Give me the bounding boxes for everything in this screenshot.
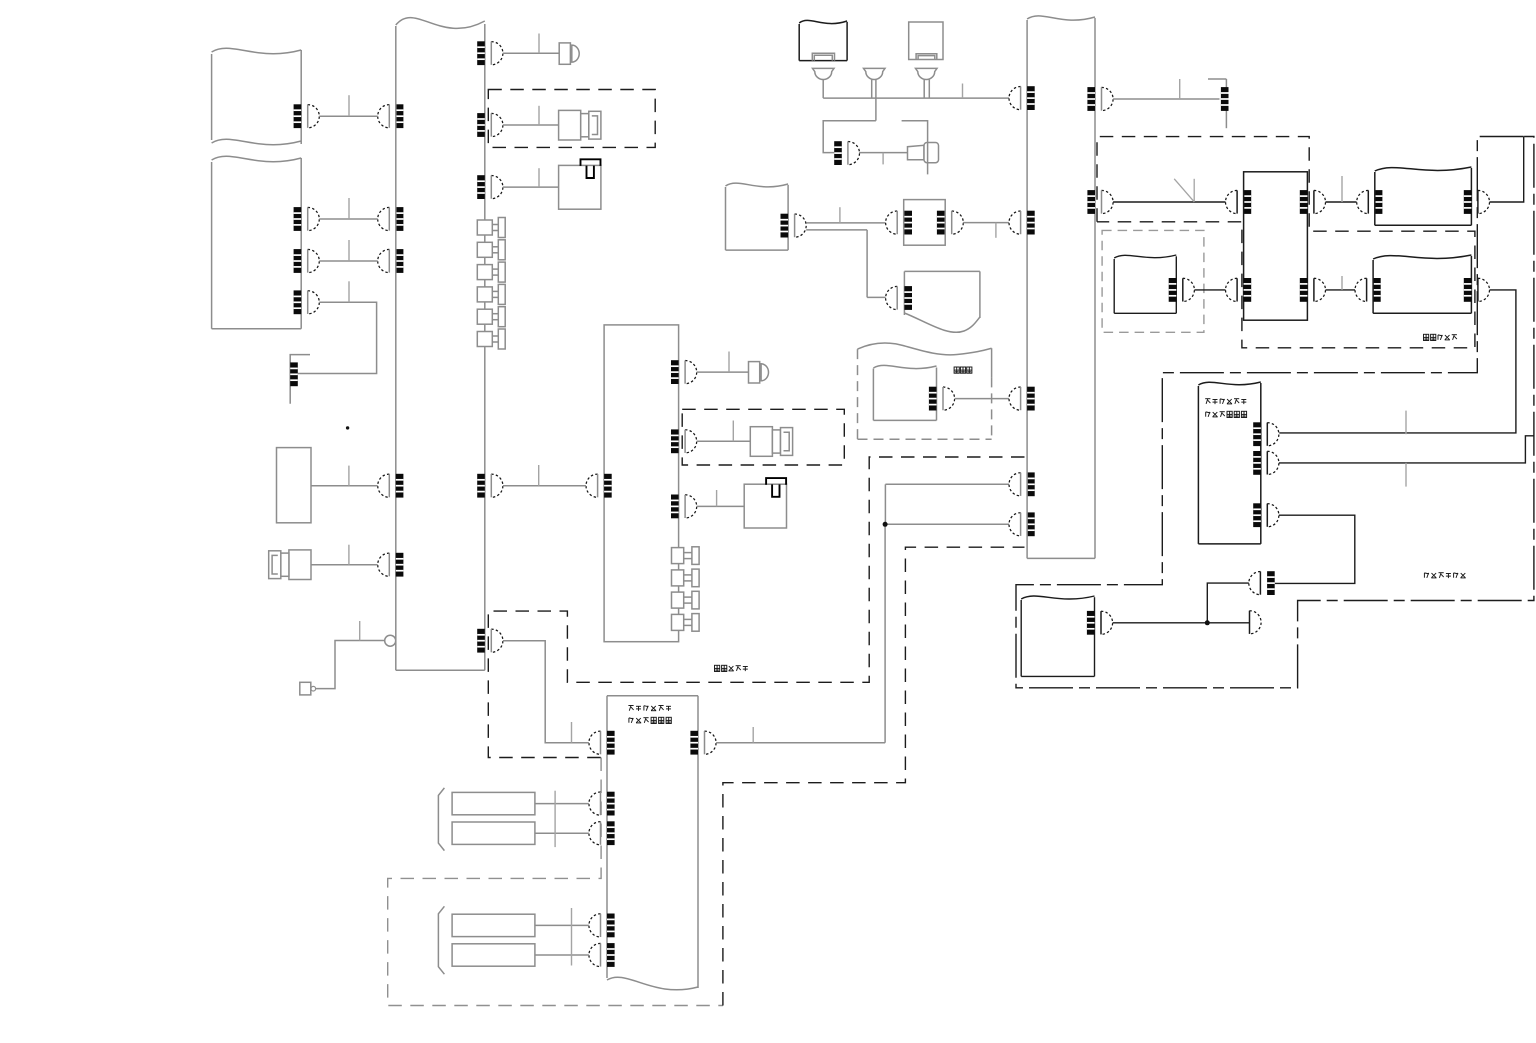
wire W34 <box>955 398 1009 400</box>
monitor M1 (break box) <box>799 20 847 60</box>
connector J41 on U6 <box>1253 503 1279 527</box>
cable marker W6 <box>538 106 540 125</box>
device box B1 <box>277 448 312 523</box>
touch-panel group boundary G7 (chain line) <box>1016 137 1534 688</box>
connector J22 on right panel <box>1009 512 1035 536</box>
connector J5 on U1 right <box>477 41 503 65</box>
stub terminal T1 with hatch <box>290 355 310 404</box>
wire W17 <box>535 803 589 805</box>
connector J3 on panel edge <box>294 249 320 273</box>
device box B2 (break box) <box>726 183 789 250</box>
monitor M4 (break box) <box>1373 255 1471 313</box>
cable marker W14 <box>716 490 718 506</box>
connector J21 on right panel <box>1009 472 1035 496</box>
wire W39 <box>1326 289 1357 291</box>
cable marker W8 <box>348 466 350 486</box>
wire W5 <box>503 52 559 54</box>
cable marker W39 <box>1341 276 1343 290</box>
small terminal T2 <box>300 682 316 695</box>
device box B4 (break bottom) <box>886 271 980 332</box>
connector J42 on B7 <box>1087 611 1113 635</box>
connector J1b on main unit U1 <box>378 104 404 128</box>
connector J9 on U1 left <box>378 553 404 577</box>
power rect R4 <box>452 944 535 966</box>
wire W19 <box>535 924 589 926</box>
plug component C8 <box>908 143 939 163</box>
bracket BR2 <box>438 906 444 974</box>
plug component C1 (adapter) <box>559 43 579 64</box>
kbd-mouse switcher U5 <box>1244 172 1308 320</box>
connector J30 on switcher U5 <box>1226 190 1252 214</box>
wire W12 <box>697 371 749 373</box>
cable marker W42 <box>1405 463 1407 487</box>
wire W3 <box>319 260 377 262</box>
wire W45 <box>1113 622 1250 624</box>
connector J36 on M4 right <box>1464 278 1490 302</box>
cable marker W12 <box>728 352 730 373</box>
wire W21 (monitor feed upper) <box>885 484 1009 524</box>
monitor M3 (break box) <box>1375 167 1472 225</box>
junction dot N1 <box>883 522 888 527</box>
component C7 (T-slot block) <box>744 478 786 528</box>
power rect R3 <box>452 914 535 936</box>
wire W2 <box>319 218 377 220</box>
wire W9 <box>311 564 378 566</box>
cable marker W37 <box>1341 176 1343 202</box>
connector J28 on U4 right <box>1087 87 1113 111</box>
cable marker W2 <box>348 198 350 219</box>
connector J17 on U3 left <box>589 792 615 816</box>
wire W32 <box>963 222 1009 224</box>
connector J3b on main unit U1 <box>378 249 404 273</box>
cable marker W27 <box>962 84 964 99</box>
device box B7 (break box) <box>1021 596 1094 676</box>
connector J39 on U6 <box>1253 422 1279 446</box>
wire W38 (to touch panel) <box>1490 137 1524 203</box>
label mouse-switch U6 <box>1206 411 1247 417</box>
wire W8 <box>311 485 378 487</box>
cable marker W3 <box>348 240 350 261</box>
connector J40 on U6 <box>1253 451 1279 475</box>
cable marker W19-20 <box>571 908 573 966</box>
connector J15 on U3 right <box>690 731 716 755</box>
wire W4 (bent) <box>298 302 377 373</box>
label rear-monitor <box>715 665 748 671</box>
wire W10 (bent) <box>316 641 385 689</box>
wire W37 <box>1326 201 1357 203</box>
wire W22 (monitor feed lower) <box>885 523 1009 525</box>
connector J29 on U4 right <box>1087 190 1113 214</box>
terminator T3 with hatch <box>1208 79 1229 128</box>
inline pair K2 (plug+hatch) <box>1249 571 1275 595</box>
wire W33 <box>867 296 887 298</box>
connector J24 on B2 <box>781 214 807 238</box>
bracket BR1 <box>438 788 444 851</box>
device box B6 (break box) <box>1114 255 1176 313</box>
dashed box G6 <box>1102 230 1204 332</box>
power rect R2 <box>452 822 535 844</box>
device box M2 <box>909 22 943 60</box>
connector J18 on U3 left <box>589 821 615 845</box>
bus wire W27 <box>823 97 1009 99</box>
dashed group boundary G5 (staircase) <box>1097 137 1475 348</box>
connector J35 on monitor M4 <box>1355 278 1381 302</box>
antenna lead W30 <box>902 121 928 175</box>
cable marker W31 <box>839 207 841 223</box>
open connector J43 <box>1250 611 1262 634</box>
accessory box B5 (break box) <box>873 365 936 420</box>
connector J32 on monitor M3 <box>1357 190 1383 214</box>
plug component C4 <box>269 550 311 580</box>
label wall-monitor <box>1424 334 1457 340</box>
inline pair K1 (hatch+plug) <box>834 141 859 165</box>
cable marker W17-18 <box>554 791 556 847</box>
wire W44 (bent) <box>1207 583 1249 623</box>
connector J23 on U4 left <box>1009 86 1035 110</box>
connector J11 on U1 right <box>477 474 503 498</box>
wire W36 <box>1113 201 1225 203</box>
dashed group box G1 <box>488 90 655 148</box>
plug component C6 (connector set) <box>750 427 792 457</box>
connector J38 on U5 left <box>1226 278 1252 302</box>
accessory group box G4 (dash-dot) <box>858 343 992 439</box>
cable marker W15 <box>752 727 754 743</box>
power rect R1 <box>452 792 535 814</box>
connector J14 on U2 right <box>671 495 697 519</box>
wire W42 (to touch panel) <box>1279 436 1534 463</box>
dashed cable group boundary G3a (gray part) <box>388 758 723 1006</box>
kbd-mouse switcher U6 (break top) <box>1198 382 1260 544</box>
cable marker W1 <box>348 95 350 116</box>
connector J26 on B5 <box>929 387 955 411</box>
dashed group box G2 <box>682 409 844 465</box>
terminal chain TB2 on U2 <box>672 547 700 631</box>
wire W35 <box>1113 98 1219 100</box>
wire W13 <box>697 440 751 442</box>
cable marker W29 <box>882 153 884 165</box>
label kbd U6 <box>1205 399 1246 404</box>
connector J7 on U1 right <box>477 175 503 199</box>
cable marker W10 <box>359 621 361 641</box>
wire W26 (twin) <box>872 80 876 121</box>
cable marker W9 <box>348 545 350 565</box>
wire W16 (bent) <box>503 641 589 743</box>
connector J2 on panel edge <box>294 207 320 231</box>
label mouse-switch U3 <box>629 717 671 723</box>
wire W14 <box>697 505 745 507</box>
label touch-panel <box>1424 573 1465 578</box>
connector J37 on B6 <box>1169 278 1195 302</box>
round connector J10 on U1 left <box>385 635 396 646</box>
wire W43 (loop) <box>1275 515 1355 583</box>
wire W7 <box>503 186 559 188</box>
unit panel U4 (right, break top) <box>1027 16 1095 559</box>
wire W25 (twin) <box>924 80 929 99</box>
connector J11b on U2 left <box>586 474 612 498</box>
connector J31 on U5 right <box>1300 190 1326 214</box>
wire W40 (loop to switcher U6) <box>1279 290 1516 433</box>
plug component C2 (connector set) <box>559 110 601 140</box>
connector J20 on U3 left <box>589 943 615 967</box>
connector J16b on U1 right <box>477 629 503 653</box>
main unit U1 (central panel, break top) <box>396 18 485 671</box>
sub unit U2 (rear-monitor panel) <box>604 325 679 642</box>
cable marker W16 <box>571 722 573 743</box>
connector bell V3 <box>864 68 886 79</box>
connector J13 on U2 right <box>671 429 697 453</box>
connector J6 on U1 right <box>477 113 503 137</box>
connector J33 on M3 right <box>1464 190 1490 214</box>
component C3 (T-slot block) <box>559 159 601 209</box>
wire W1 <box>319 115 377 117</box>
junction dot N2 <box>1205 620 1210 625</box>
connector J8 on U1 left <box>378 474 404 498</box>
twin cable W31 <box>806 223 886 298</box>
cable marker W11 <box>538 465 540 486</box>
wire W18 <box>535 832 589 834</box>
unit panel A2 (break box left) <box>212 156 302 328</box>
cable marker W32 <box>995 223 997 238</box>
wire W29 <box>859 152 907 154</box>
connector J25 on U4 left <box>1009 211 1035 235</box>
wire W41 <box>1194 289 1225 291</box>
wire W11 <box>503 485 586 487</box>
plug component C5 (adapter) <box>749 362 769 383</box>
pedestal of M2 <box>916 54 937 60</box>
connector J2b on main unit U1 <box>378 207 404 231</box>
pedestal of M1 <box>812 53 834 60</box>
connector J19 on U3 left <box>589 914 615 938</box>
wire W15 <box>716 742 885 744</box>
connector J12 on U2 right <box>671 360 697 384</box>
wire W23 (drop to switcher) <box>884 524 886 742</box>
connector J1 on panel edge <box>294 104 320 128</box>
label kbd U3 <box>628 706 671 711</box>
junction box B3 (with connectors) <box>886 200 964 246</box>
wire W24 <box>822 80 824 99</box>
cable marker W35 <box>1179 79 1181 99</box>
connector J27 on U4 left <box>1009 387 1035 411</box>
wire W6 <box>503 124 559 126</box>
connector J4 on panel edge <box>294 290 320 314</box>
unit panel A1 (break box top-left) <box>212 48 302 144</box>
connector bell V1 <box>813 68 835 79</box>
label accessories <box>954 367 972 373</box>
cable marker W5 <box>538 34 540 54</box>
wire W20 <box>535 954 589 956</box>
kbd-mouse switcher U3 (break bottom) <box>607 696 698 990</box>
connector J34 on U5 right <box>1300 278 1326 302</box>
terminal chain TB1 on U1 <box>477 218 505 350</box>
reference dot <box>346 426 349 429</box>
connector bell V2 <box>916 68 938 79</box>
dashed cable group boundary G3b (black part) <box>488 457 1024 1006</box>
cable marker W4 <box>348 281 350 302</box>
cable marker W40b <box>1405 411 1407 435</box>
leader mark A1 <box>1174 179 1194 202</box>
cable marker W13 <box>732 421 734 442</box>
cable marker W7 <box>538 168 540 187</box>
wire W28 (bent) <box>823 121 876 153</box>
connector J16 on U3 left <box>589 731 615 755</box>
